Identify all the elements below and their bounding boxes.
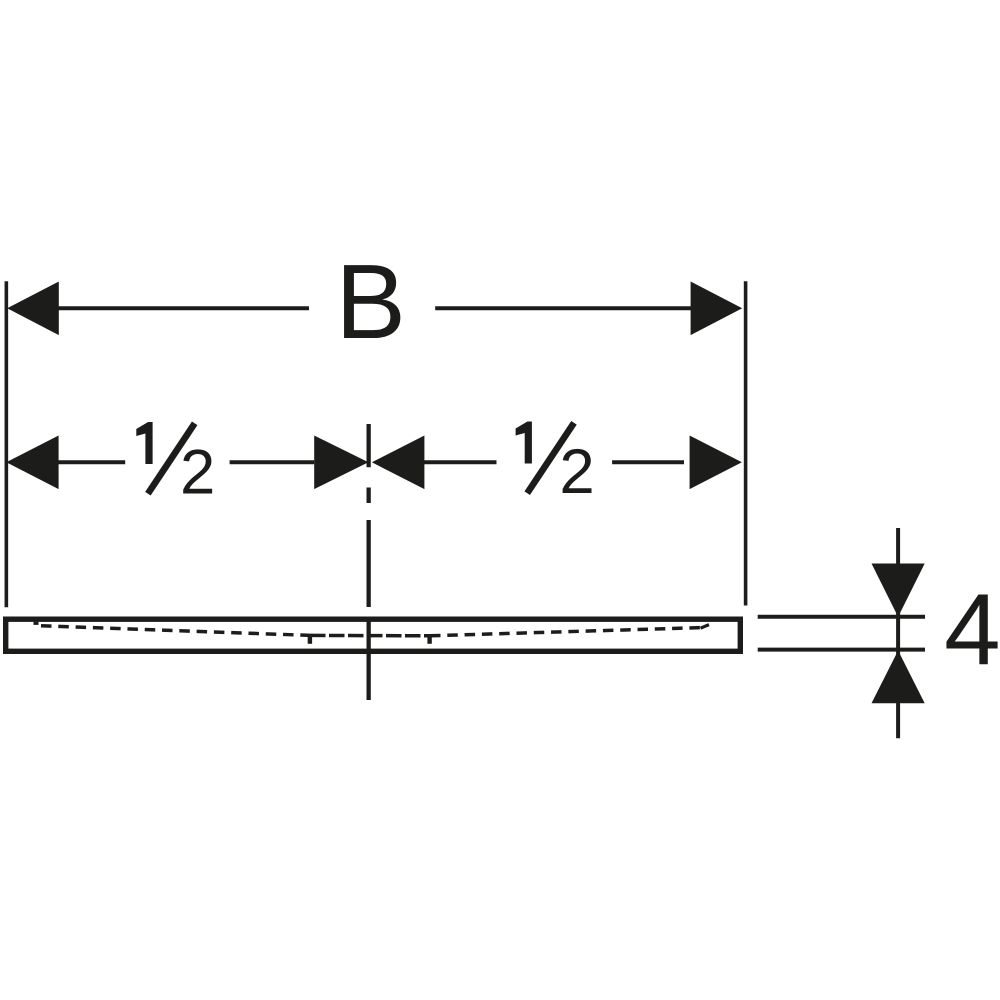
label 1/2 left: numerator 1 (136, 422, 152, 464)
centerline long segment (366, 520, 370, 607)
label 1/2 left: fraction slash (148, 423, 195, 493)
hidden waterline start tick (34, 622, 39, 625)
svg-text:4: 4 (944, 572, 1000, 686)
shower tray outline (cross-section) (6, 619, 741, 651)
thickness arrowhead top (points down) (872, 564, 925, 617)
svg-text:2: 2 (559, 437, 594, 507)
thickness extension line top (758, 615, 925, 619)
hidden waterline dashed right slope (430, 628, 702, 636)
centerline segment through tray (366, 617, 370, 701)
hidden waterline dashed left slope (41, 626, 310, 636)
dimension line half left segment a (58, 460, 125, 464)
thickness dimension vertical line (896, 528, 900, 738)
label 1/2 right: fraction slash (527, 423, 574, 493)
label 1/2 right: numerator 1 (516, 422, 532, 464)
arrowhead B right (691, 282, 743, 336)
centerline short dash (366, 488, 370, 504)
arrowhead B left (7, 282, 59, 336)
svg-text:B: B (335, 243, 406, 361)
dimension line B left segment (56, 306, 309, 310)
dimension line half left segment b (230, 460, 315, 464)
dimension line half right segment b (612, 460, 684, 464)
extension line left (5, 281, 9, 607)
thickness extension line bottom (758, 648, 925, 652)
arrowhead half right at right extension (690, 436, 742, 490)
drain tick right (427, 634, 431, 644)
centerline segment 1 (solid through half dimension) (366, 424, 370, 467)
dimension line half left: arrowhead at left extension (6, 436, 58, 490)
arrowhead half left at center (points right) (314, 436, 368, 490)
svg-text:2: 2 (180, 437, 215, 507)
dimension line half right segment a (424, 460, 497, 464)
drain tick left (308, 634, 312, 644)
dimension line B right segment (435, 306, 691, 310)
hidden waterline end hook (701, 625, 710, 629)
thickness arrowhead bottom (points up) (872, 651, 925, 704)
extension line right (744, 281, 748, 605)
arrowhead half right at center (points left) (372, 436, 425, 490)
hidden waterline dashed center channel (310, 634, 430, 638)
